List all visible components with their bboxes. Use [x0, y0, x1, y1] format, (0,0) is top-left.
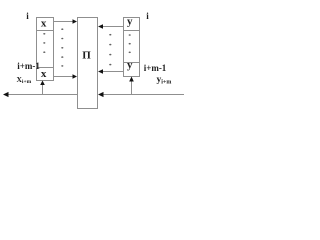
register X divider top cell [37, 30, 54, 32]
register Y box [124, 18, 140, 77]
arrowhead input right into PI [98, 92, 104, 97]
dots inside register Y [129, 34, 131, 36]
svg-text:i+m-1: i+m-1 [17, 61, 40, 71]
register X box [37, 18, 54, 81]
svg-text:x: x [41, 68, 47, 80]
register X divider bottom cell [37, 67, 54, 69]
arrowhead into PI top-right [98, 24, 103, 28]
wire x bottom cell to PI [54, 76, 74, 78]
wire y bottom cell to PI [103, 71, 124, 73]
svg-text:y: y [127, 16, 133, 28]
wire input right [103, 94, 185, 96]
svg-text:Π: Π [82, 49, 91, 61]
register Y divider bottom cell [124, 62, 140, 64]
svg-text:i+m-1: i+m-1 [144, 63, 167, 73]
wire x top cell to PI [54, 21, 74, 23]
svg-text:y: y [127, 59, 133, 71]
arrowhead into PI bottom-left [73, 74, 78, 78]
wire PI output left [8, 94, 78, 96]
dots inside register X [43, 33, 45, 35]
wire yi+m feed up [131, 82, 133, 95]
arrowhead up into register Y [129, 77, 134, 82]
arrowhead up into register X [40, 81, 45, 86]
wire y top cell to PI [103, 26, 124, 28]
svg-text:x: x [41, 17, 47, 29]
wire xi+m feed up [42, 85, 44, 95]
arrowhead output left [3, 92, 9, 97]
arrowhead into PI top-left [73, 19, 78, 23]
register Y divider top cell [124, 30, 140, 32]
arrowhead into PI bottom-right [98, 69, 103, 73]
multiplier block PI box [78, 18, 98, 109]
dots wires between PI and Y [109, 34, 111, 36]
dots wires between X and PI [61, 28, 63, 30]
